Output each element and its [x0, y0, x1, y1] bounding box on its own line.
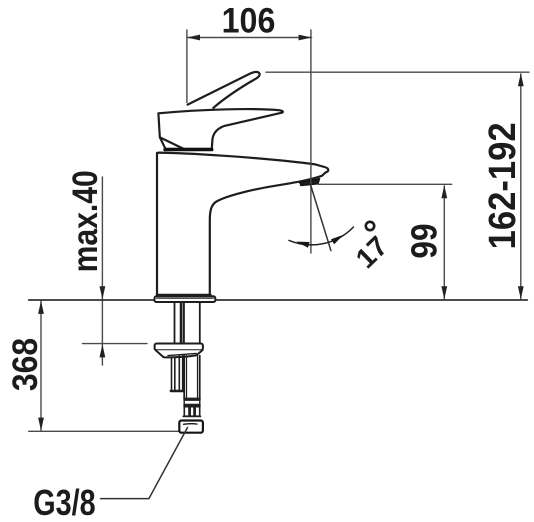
dimension 368 arrows	[38, 301, 44, 431]
extension line right (through spout outlet)	[310, 30, 312, 253]
dimension 99 label	[405, 223, 445, 258]
dimension 368 line	[40, 301, 42, 430]
dimension 162-192 line	[520, 74, 522, 299]
svg-text:99: 99	[405, 223, 445, 258]
svg-text:G3/8: G3/8	[33, 482, 95, 522]
reference line washer (max.40 bottom)	[83, 343, 148, 345]
aerator	[300, 179, 320, 186]
extension line left (handle end)	[186, 30, 188, 103]
handle bevel line	[161, 138, 184, 149]
faucet body with spout	[157, 153, 328, 296]
hose hex section	[183, 398, 200, 407]
handle seam (thick)	[165, 148, 212, 151]
G3/8 label	[33, 482, 95, 522]
deck line	[29, 299, 528, 301]
dimension 162-192 arrows	[518, 73, 524, 299]
dimension 99 arrows	[441, 185, 447, 299]
dimension max.40 label	[65, 170, 105, 272]
base flange	[155, 295, 216, 302]
dimension max.40 line	[101, 177, 103, 365]
swivel arc	[289, 227, 354, 245]
G3/8 leader line	[101, 428, 188, 499]
lever	[188, 72, 260, 108]
svg-text:max.40: max.40	[65, 170, 105, 272]
reference line hose end (368 bottom)	[29, 430, 179, 432]
dimension 106 arrows	[187, 35, 312, 41]
handle base	[158, 109, 282, 149]
dimension 162-192 label	[481, 122, 524, 249]
label 17 degrees	[350, 222, 394, 274]
water stream line	[311, 185, 331, 251]
svg-text:368: 368	[5, 338, 45, 391]
shank tubes (deck to washer)	[175, 303, 200, 344]
swivel arc arrow right	[331, 235, 344, 245]
reference line from lever tip to 162-192	[266, 71, 529, 73]
svg-text:17: 17	[350, 230, 394, 274]
swivel arc arrow left	[296, 242, 309, 248]
stud tube below washer	[171, 356, 184, 391]
dimension 99 line	[443, 186, 445, 299]
dimension 106 line	[187, 37, 312, 39]
dimension 106 label	[222, 2, 276, 41]
reference line from aerator to 99	[319, 183, 452, 185]
hose connector nut G3/8	[179, 421, 203, 433]
hose ribbed section	[183, 407, 200, 417]
dimension max.40 arrows	[100, 286, 106, 357]
svg-text:162-192: 162-192	[481, 122, 524, 249]
supply pipe below washer	[184, 356, 200, 398]
mounting washer	[155, 344, 203, 358]
svg-text:106: 106	[222, 2, 276, 41]
dimension 368 label	[5, 338, 45, 391]
